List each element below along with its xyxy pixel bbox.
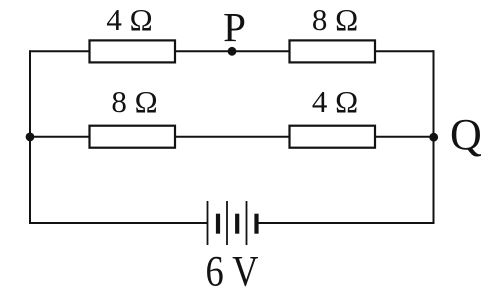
wire bottom-left (bottom-left corner to battery)	[30, 222, 208, 224]
wire left vertical (top-left corner to bottom-left corner)	[29, 50, 31, 224]
wire top-left (left corner to R1)	[30, 50, 89, 52]
wire top-right (R2 to right vertical)	[376, 50, 435, 52]
node (left junction dot on left vertical)	[26, 133, 35, 142]
svg-text:4 Ω: 4 Ω	[106, 2, 152, 37]
wire right vertical (top-right corner to bottom-right corner)	[433, 50, 435, 224]
battery long plate 3	[246, 201, 248, 245]
resistor R2 8 ohm (top-right)	[290, 2, 376, 62]
wire bottom-right (battery to bottom-right corner)	[257, 222, 434, 224]
resistor R1 4 ohm (top-left)	[90, 2, 176, 62]
svg-text:P: P	[223, 4, 246, 50]
battery long plate 1	[207, 201, 209, 245]
battery long plate 2	[226, 201, 228, 245]
svg-text:6 V: 6 V	[206, 249, 259, 296]
battery B1 6V (three cells, bottom branch)	[206, 201, 259, 296]
resistor R4 4 ohm (middle-right)	[290, 84, 376, 148]
wire middle-right (R4 to node Q)	[376, 136, 434, 138]
node P (junction dot on top branch)	[223, 4, 246, 55]
svg-text:8 Ω: 8 Ω	[312, 2, 358, 37]
svg-text:Q: Q	[450, 110, 482, 159]
node Q (junction dot on right vertical)	[429, 110, 482, 159]
battery short plate 1	[216, 214, 220, 234]
battery short plate 2	[235, 214, 239, 234]
svg-text:4 Ω: 4 Ω	[312, 84, 358, 119]
wire top-middle (R1 through node P to R2)	[176, 50, 289, 52]
resistor R3 8 ohm (middle-left)	[90, 84, 176, 148]
svg-text:8 Ω: 8 Ω	[111, 84, 157, 119]
wire middle-left (left node to R3)	[30, 136, 89, 138]
wire middle-center (R3 to R4)	[176, 136, 289, 138]
battery short plate 3	[254, 214, 258, 234]
